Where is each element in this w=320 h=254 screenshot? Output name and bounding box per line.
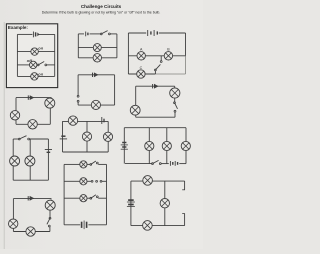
- switch S1 (open): [37, 62, 46, 66]
- lamp L19: [181, 141, 190, 150]
- lamp L23: [80, 161, 87, 168]
- wire C2 top c: [110, 33, 117, 35]
- switch S8 (open): [47, 217, 51, 227]
- wire C5 bottom: [78, 104, 115, 106]
- lamp L16: [103, 132, 112, 141]
- wire C12 bottom: [131, 225, 185, 227]
- lamp L20: [45, 200, 55, 210]
- wire C8 top: [63, 120, 109, 122]
- wire C9 branch 2: [166, 128, 168, 164]
- wire C11 branch3 c: [98, 197, 106, 199]
- wire C9 bottom b: [161, 163, 169, 165]
- lamp L13: [25, 156, 35, 166]
- wire C2 top b: [90, 33, 101, 35]
- lamp A: [137, 52, 145, 60]
- wire C1 branch 3: [17, 75, 54, 77]
- lamp L28: [143, 221, 153, 231]
- wire C7 rail 3: [47, 139, 49, 180]
- wire C8 right rail: [107, 121, 109, 152]
- wire C2 left rail: [77, 34, 79, 58]
- wire C3 bottom right (faint): [155, 73, 185, 75]
- svg-text:Determine if the bulb is glowi: Determine if the bulb is glowing or not …: [42, 11, 161, 15]
- wire C11 branch2 b: [87, 180, 91, 182]
- wire C2 top a: [78, 33, 84, 35]
- lamp L4: [93, 44, 101, 52]
- wire C3 right rail lower (faint): [185, 56, 187, 74]
- wire C3 bottom left: [128, 73, 155, 75]
- wire C7 bottom: [13, 179, 48, 181]
- lamp L14: [68, 116, 77, 125]
- lamp C: [137, 70, 145, 78]
- wire C6 bottom: [136, 116, 175, 118]
- wire C4 top: [16, 97, 52, 99]
- wire C10 right rail: [49, 210, 51, 217]
- switch S10 contact: [100, 180, 102, 182]
- wire C2 middle branch: [78, 47, 117, 49]
- example box: [6, 24, 57, 88]
- wire C7 rail 2: [29, 139, 31, 180]
- wire C5 left rail lower: [77, 102, 79, 105]
- wire C11 branch1 a: [64, 163, 80, 165]
- battery BT7: [45, 150, 52, 153]
- wire C11 left rail: [63, 164, 65, 224]
- wire C4 bottom: [16, 123, 50, 125]
- lamp L6: [45, 98, 55, 108]
- wire C9 top: [124, 127, 186, 129]
- wire C3 right rail upper: [185, 33, 187, 56]
- battery BT13: [127, 200, 135, 207]
- wire C10 elbow: [50, 199, 52, 200]
- switch S7 (open): [152, 160, 162, 164]
- wire C1 branch 2 right: [47, 64, 55, 66]
- wire C2 right rail: [116, 34, 118, 58]
- lamp L1 (on): [31, 48, 38, 55]
- switch S10 (open contacts): [91, 180, 97, 182]
- wire C12 middle branch: [164, 181, 166, 226]
- wire C5 top: [78, 74, 115, 76]
- lamp L17: [145, 141, 154, 150]
- svg-text:off: off: [27, 58, 33, 63]
- wire C1 branch 2 left: [17, 64, 29, 66]
- lamp L9: [91, 100, 100, 109]
- scan edge line: [3, 22, 5, 249]
- battery BT12: [82, 221, 87, 230]
- wire C9 branch 1: [148, 128, 150, 164]
- lamp L15: [82, 132, 91, 141]
- wire C9 left rail: [123, 128, 125, 164]
- wire C12 right rail upper: [184, 181, 186, 190]
- wire C7 top a: [13, 138, 18, 140]
- wire C6 stub3: [174, 112, 176, 117]
- wire C3 left rail: [127, 33, 129, 74]
- wire C12 left rail: [130, 181, 132, 226]
- wire C12 right rail lower: [184, 214, 186, 226]
- svg-text:on: on: [38, 46, 43, 51]
- wire C10 bottom: [13, 231, 50, 233]
- lamp L22: [9, 219, 18, 228]
- wire C8 middle branch: [86, 121, 88, 152]
- wire C9 bottom a: [125, 163, 152, 165]
- wire C11 bottom b: [88, 224, 106, 226]
- wire C10 left rail: [12, 199, 14, 232]
- wire C10 top: [13, 198, 51, 200]
- wire C8 left rail: [62, 121, 64, 152]
- lamp L27: [160, 199, 169, 208]
- wire C1 branch 1: [17, 51, 54, 53]
- wire C6 top: [136, 85, 175, 87]
- wire C8 bottom: [63, 151, 109, 153]
- wire C1 right rail: [54, 34, 56, 76]
- switch S9 (open): [90, 161, 98, 165]
- battery BT10: [170, 161, 177, 166]
- lamp L24: [80, 178, 87, 185]
- wire C3 top left: [128, 32, 146, 34]
- wire C11 branch2 a: [64, 180, 80, 182]
- lamp L5: [93, 54, 101, 62]
- wire C4 left rail: [15, 98, 17, 125]
- switch S11 (open): [90, 195, 98, 199]
- switch S2 (open): [100, 31, 110, 35]
- svg-text:Example:: Example:: [8, 25, 29, 30]
- wire C11 branch1 c: [98, 163, 106, 165]
- wire C7 top b: [30, 138, 49, 140]
- wire C10 stub: [49, 227, 51, 232]
- wire C1 left rail: [16, 34, 18, 76]
- wire C3 top right: [159, 32, 186, 34]
- battery BT5: [93, 72, 99, 77]
- svg-text:Challenge Circuits: Challenge Circuits: [81, 4, 122, 9]
- wire C5 left rail upper: [77, 75, 79, 95]
- lamp L8: [28, 120, 37, 129]
- battery BT8: [102, 117, 104, 124]
- wire C4 elbow: [50, 98, 52, 99]
- wire C3 elbow: [154, 71, 156, 74]
- wire C1 top-right: [38, 33, 55, 35]
- wire C9 branch 3 / right rail: [185, 128, 187, 164]
- wire C9 bottom c: [179, 163, 186, 165]
- wire C11 bottom a: [64, 224, 80, 226]
- lamp L2 (off): [30, 61, 37, 68]
- lamp L25: [80, 195, 87, 202]
- switch S6 (open): [18, 136, 29, 140]
- battery BT11: [28, 196, 34, 201]
- open gap tick: [182, 189, 185, 191]
- switch S4 (open contacts): [77, 95, 79, 102]
- wire C2 bottom: [78, 57, 117, 59]
- switch S3 (open): [155, 61, 163, 71]
- lamp L3 (on): [31, 73, 38, 80]
- lamp L10: [170, 88, 180, 98]
- wire C12 top: [131, 180, 185, 182]
- battery BT2: [86, 32, 88, 37]
- wire C11 branch1 b: [87, 163, 90, 165]
- wire C11 branch3 a: [64, 197, 80, 199]
- battery BT6: [153, 84, 159, 89]
- battery BT9: [60, 136, 67, 139]
- wire C11 branch3 b: [87, 197, 90, 199]
- wire C1 top-left: [17, 33, 32, 35]
- wire C7 rail 1: [12, 139, 14, 180]
- lamp B: [164, 52, 172, 60]
- wire C6 stub: [174, 86, 176, 88]
- wire C5 right rail: [114, 75, 116, 105]
- wire C6 stub2: [174, 98, 176, 102]
- battery BT14: [121, 143, 128, 150]
- wire C3 switch to branch: [160, 56, 162, 61]
- wire C6 left rail: [135, 86, 137, 117]
- lamp L18: [162, 141, 171, 150]
- wire C3 middle branch: [128, 55, 185, 57]
- battery BT3: [148, 30, 158, 36]
- wire C11 right rail: [106, 164, 108, 224]
- lamp L12: [10, 156, 20, 166]
- switch S5 (open): [174, 102, 178, 112]
- wire C11 branch2 c: [102, 180, 107, 182]
- lamp L21: [26, 227, 35, 236]
- svg-text:on: on: [38, 71, 43, 76]
- battery BT1: [33, 32, 39, 38]
- battery BT4: [28, 95, 34, 100]
- wire C4 right rail: [49, 108, 51, 124]
- open gap tick: [182, 213, 185, 215]
- lamp L26: [143, 176, 153, 186]
- lamp L11: [130, 105, 140, 115]
- lamp L7: [10, 111, 19, 120]
